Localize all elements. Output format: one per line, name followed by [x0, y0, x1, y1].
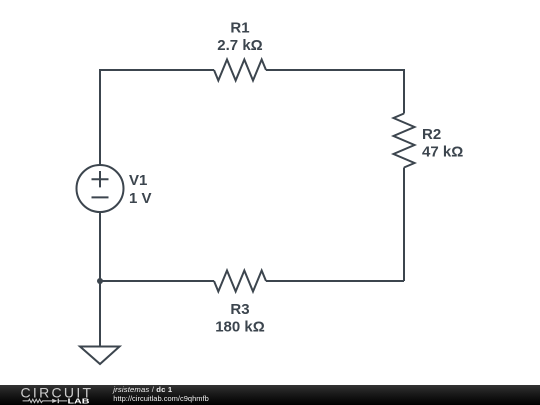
- label R2 value: [422, 126, 463, 161]
- svg-text:2.7 kΩ: 2.7 kΩ: [217, 37, 262, 54]
- label R1 value: [217, 19, 262, 54]
- label V1 value: [129, 172, 152, 207]
- svg-text:http://circuitlab.com/c9qhmfb: http://circuitlab.com/c9qhmfb: [113, 394, 208, 403]
- wire to ground: [99, 281, 101, 347]
- wire right-bottom segment: [403, 168, 405, 282]
- CircuitLab logo: [21, 384, 94, 405]
- resistor R1: [214, 60, 266, 81]
- label R3 value: [215, 301, 265, 336]
- svg-text:R1: R1: [230, 19, 249, 36]
- resistor R2: [394, 114, 415, 168]
- wire right-top segment: [403, 69, 405, 114]
- svg-text:180 kΩ: 180 kΩ: [215, 318, 265, 335]
- footer bar: [0, 385, 540, 405]
- svg-text:47 kΩ: 47 kΩ: [422, 143, 463, 160]
- wire top-right segment: [266, 69, 404, 71]
- svg-text:R2: R2: [422, 126, 441, 143]
- wire bottom-left segment: [100, 280, 214, 282]
- wire left-bottom segment: [99, 212, 101, 281]
- svg-text:LAB: LAB: [68, 398, 90, 405]
- wire bottom-right segment: [266, 280, 404, 282]
- svg-text:V1: V1: [129, 172, 147, 189]
- resistor R3: [214, 271, 266, 292]
- svg-text:R3: R3: [230, 301, 249, 318]
- ground: [80, 347, 120, 365]
- node junction: [97, 278, 103, 284]
- wire left-top segment: [99, 69, 101, 165]
- svg-text:jrsistemas / dc 1: jrsistemas / dc 1: [112, 385, 173, 394]
- voltage source V1: [77, 165, 124, 212]
- footer title text: [112, 385, 208, 403]
- wire top-left segment: [100, 69, 214, 71]
- svg-text:1 V: 1 V: [129, 190, 152, 207]
